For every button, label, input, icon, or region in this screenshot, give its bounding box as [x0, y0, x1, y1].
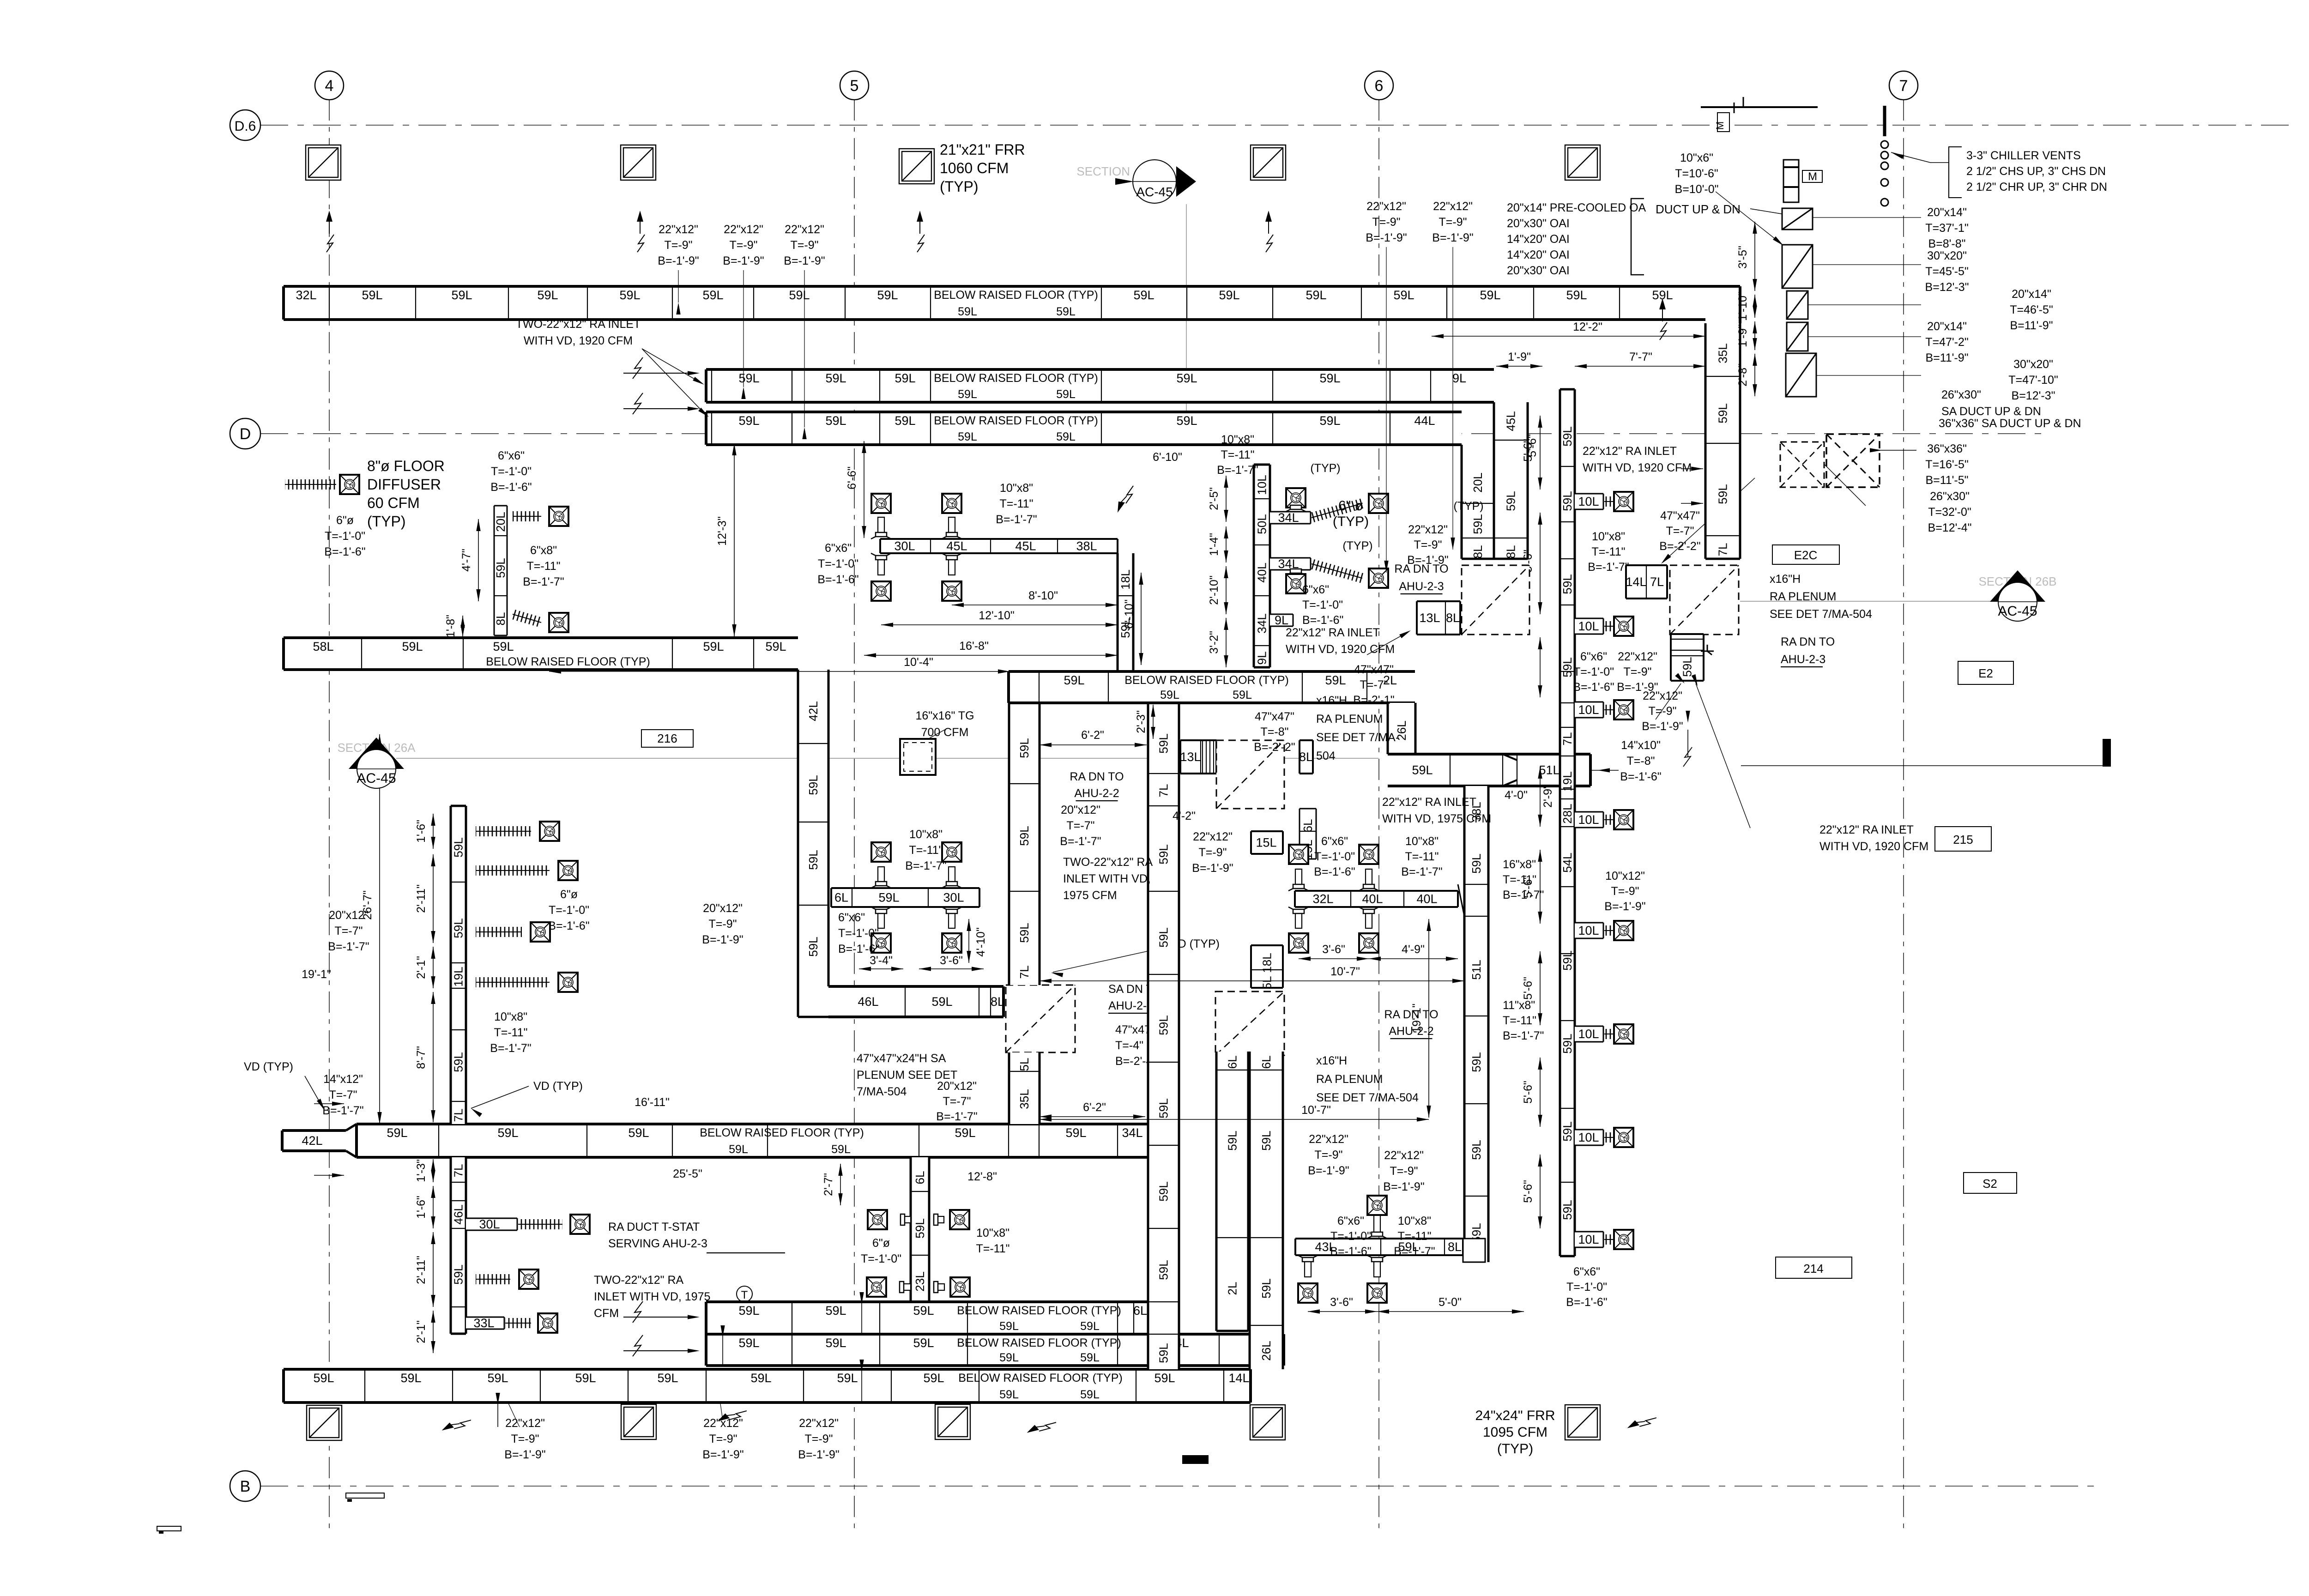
- svg-text:(TYP): (TYP): [940, 178, 979, 195]
- r4 stem b1: [1295, 913, 1302, 928]
- dim 6-2 v9: [1040, 1116, 1145, 1117]
- svg-text:26"x30": 26"x30": [1930, 490, 1970, 503]
- V1 branch flex 2: [476, 927, 522, 937]
- svg-text:22"x12": 22"x12": [1433, 200, 1473, 213]
- r6 stem b1: [1305, 1262, 1311, 1277]
- V1 fan 33L: [538, 1313, 557, 1333]
- svg-text:59L: 59L: [1560, 950, 1574, 970]
- svg-text:214: 214: [1803, 1262, 1823, 1276]
- FRR diffuser top #4: [1251, 145, 1286, 180]
- svg-text:59L: 59L: [1471, 514, 1485, 534]
- svg-text:20"x14": 20"x14": [1927, 320, 1967, 333]
- c1 stem B: [1293, 569, 1299, 570]
- V7 branch fan #1: [1614, 492, 1633, 511]
- svg-text:B=-1'-6": B=-1'-6": [490, 481, 532, 494]
- svg-text:59L: 59L: [537, 288, 558, 302]
- svg-text:6L: 6L: [1133, 1304, 1147, 1318]
- svg-text:51L: 51L: [1469, 960, 1483, 979]
- svg-text:B=11'-9": B=11'-9": [2010, 319, 2053, 332]
- duct 26L drop: [1388, 703, 1415, 754]
- duct corner band1 to V8: [1705, 285, 1740, 288]
- FRR diffuser top #1: [306, 145, 341, 180]
- feed arrow #2: [623, 408, 688, 409]
- svg-text:BELOW RAISED FLOOR (TYP): BELOW RAISED FLOOR (TYP): [934, 372, 1098, 385]
- r6 corner box: [1463, 1239, 1485, 1262]
- dim 2-7: [840, 1164, 841, 1205]
- twin duct right 6L/59L/26L: [1250, 1052, 1283, 1369]
- duct run 46L/59L/8L: [828, 986, 1004, 1017]
- V7 branch flex #2: [1604, 621, 1614, 631]
- V7 branch flex #8: [1604, 1234, 1614, 1245]
- svg-text:BELOW RAISED FLOOR (TYP): BELOW RAISED FLOOR (TYP): [934, 289, 1098, 302]
- grid column line 7: [1903, 99, 1904, 1529]
- svg-text:59L: 59L: [765, 640, 786, 653]
- svg-text:47"x47": 47"x47": [1354, 663, 1394, 676]
- svg-text:AC-45: AC-45: [357, 771, 396, 786]
- FRR diffuser top #2: [621, 145, 656, 180]
- svg-text:T=32'-0": T=32'-0": [1928, 506, 1971, 519]
- svg-text:1'-8": 1'-8": [444, 615, 457, 638]
- svg-text:BELOW RAISED FLOOR (TYP): BELOW RAISED FLOOR (TYP): [486, 655, 650, 668]
- svg-text:22"x12": 22"x12": [724, 223, 763, 236]
- svg-text:7/MA-504: 7/MA-504: [857, 1085, 907, 1098]
- dim 12-10: [881, 624, 1118, 625]
- V1 branch flex 1: [476, 865, 550, 876]
- svg-text:6"x6": 6"x6": [825, 542, 852, 555]
- grid row line B: [260, 1486, 2097, 1487]
- svg-text:59L: 59L: [1017, 826, 1031, 846]
- svg-text:B=10'-0": B=10'-0": [1675, 183, 1719, 196]
- svg-text:T=-9": T=-9": [709, 1433, 737, 1445]
- c1 stem A: [1293, 505, 1299, 506]
- V1 fan 3: [558, 973, 578, 992]
- svg-text:20L: 20L: [494, 512, 508, 532]
- leader lines right squares: [1813, 217, 1921, 218]
- svg-text:4'-0": 4'-0": [1505, 789, 1528, 802]
- svg-text:T=-1'-0": T=-1'-0": [491, 465, 532, 478]
- leader 10x6: [1716, 192, 1783, 245]
- svg-text:59L: 59L: [1157, 1181, 1171, 1201]
- svg-text:59L: 59L: [575, 1371, 596, 1385]
- grid bubble D: [230, 418, 260, 449]
- svg-text:59L: 59L: [825, 414, 846, 428]
- svg-text:59L: 59L: [837, 1371, 858, 1385]
- line to black bar: [1741, 765, 2103, 766]
- 59L box leader 2: [1696, 683, 1750, 828]
- svg-text:59L: 59L: [738, 414, 759, 428]
- svg-text:6"x6": 6"x6": [1337, 1215, 1364, 1227]
- svg-text:RA DN TO: RA DN TO: [1070, 770, 1124, 783]
- svg-text:AC-45: AC-45: [1998, 604, 2037, 619]
- duct 13L box: [1180, 740, 1216, 774]
- svg-text:T=-9": T=-9": [1199, 846, 1227, 859]
- duct V6 transition: [1458, 884, 1464, 916]
- grid column line 6: [1378, 99, 1379, 1529]
- c1 flex2: [1310, 559, 1364, 583]
- 6L 15L boxes: [1300, 809, 1316, 860]
- svg-text:59L: 59L: [878, 891, 899, 905]
- svg-text:59L: 59L: [400, 1371, 421, 1385]
- duct V6 vertical: [1464, 831, 1488, 1262]
- svg-text:10L: 10L: [1255, 475, 1269, 495]
- dim 19-1b: [1428, 919, 1429, 1118]
- svg-text:10'-7": 10'-7": [1330, 965, 1360, 978]
- bottom left tick: [347, 1499, 352, 1502]
- V7 branch stub 10L #7: [1575, 1130, 1603, 1145]
- dim 6-6: [864, 441, 864, 538]
- svg-text:22"x12": 22"x12": [1618, 650, 1657, 663]
- r1 fan b1: [871, 581, 891, 601]
- svg-text:5'-6": 5'-6": [1522, 875, 1535, 898]
- break arrow bottom #1: [442, 1410, 471, 1440]
- svg-text:30"x20": 30"x20": [1927, 249, 1967, 262]
- svg-text:1975 CFM: 1975 CFM: [1063, 889, 1117, 902]
- svg-text:42L: 42L: [302, 1134, 322, 1148]
- duct V3 corner to 46L run: [797, 986, 799, 1017]
- svg-text:6"ø: 6"ø: [872, 1237, 890, 1250]
- r6 stem b2: [1374, 1262, 1380, 1277]
- V7 branch flex #6: [1604, 1029, 1614, 1039]
- svg-text:B=-1'-9": B=-1'-9": [702, 933, 743, 946]
- svg-text:59L: 59L: [1560, 426, 1574, 446]
- svg-text:10'-4": 10'-4": [904, 656, 933, 669]
- svg-text:B=-1'-9": B=-1'-9": [784, 254, 825, 267]
- duct V3 vertical 42L/59L: [798, 670, 828, 986]
- svg-text:T=-7": T=-7": [1666, 525, 1694, 538]
- svg-text:2 1/2" CHR UP, 3" CHR DN: 2 1/2" CHR UP, 3" CHR DN: [1966, 181, 2107, 193]
- svg-text:B=-2'-2": B=-2'-2": [1659, 540, 1700, 553]
- duct V1 vertical 59L chain upper: [451, 806, 466, 1124]
- svg-text:1'-4": 1'-4": [1208, 533, 1221, 556]
- svg-text:22"x12": 22"x12": [703, 1417, 743, 1430]
- section marker AC-45 top: [1076, 160, 1196, 203]
- dim 2-9: [1540, 767, 1541, 827]
- svg-text:T=-1'-0": T=-1'-0": [325, 530, 365, 543]
- svg-text:B=-1'-7": B=-1'-7": [905, 859, 946, 872]
- svg-text:B=-1'-9": B=-1'-9": [658, 254, 699, 267]
- V2 fan left2: [867, 1277, 886, 1297]
- svg-text:3'-6": 3'-6": [1322, 943, 1345, 956]
- svg-text:4'-7": 4'-7": [460, 549, 473, 572]
- duct V7 central vertical: [1560, 389, 1575, 1256]
- svg-text:5'-6": 5'-6": [1522, 977, 1535, 1000]
- svg-text:B=12'-3": B=12'-3": [2012, 389, 2055, 402]
- svg-text:8'-7": 8'-7": [415, 1046, 428, 1069]
- duct band 3 (59L/44L run below raised floor): [706, 412, 1462, 445]
- svg-text:T=-9": T=-9": [511, 1433, 539, 1445]
- svg-text:B=-1'-6": B=-1'-6": [1566, 1296, 1607, 1309]
- svg-text:AHU-2-3: AHU-2-3: [1399, 580, 1444, 593]
- svg-text:7L: 7L: [452, 1164, 465, 1178]
- room tag E2C: [1772, 545, 1839, 564]
- c1 fan A: [1286, 488, 1306, 508]
- svg-text:T=-9": T=-9": [665, 239, 693, 252]
- FRR diffuser bottom #3: [935, 1404, 970, 1439]
- svg-text:2'-1": 2'-1": [415, 1320, 428, 1343]
- svg-text:59L: 59L: [657, 1371, 678, 1385]
- svg-text:E2C: E2C: [1794, 548, 1818, 562]
- svg-text:47"x47": 47"x47": [1255, 710, 1294, 723]
- svg-text:13L: 13L: [1180, 750, 1201, 764]
- svg-text:59L: 59L: [738, 1304, 759, 1318]
- svg-text:7: 7: [1899, 77, 1908, 95]
- svg-text:30L: 30L: [894, 539, 915, 553]
- c1 stub1: [1270, 511, 1311, 525]
- svg-text:22"x12": 22"x12": [1366, 200, 1406, 213]
- svg-text:T=37'-1": T=37'-1": [1925, 222, 1969, 235]
- svg-text:B=-1'-6": B=-1'-6": [1620, 770, 1661, 783]
- svg-text:RA DN TO: RA DN TO: [1781, 635, 1835, 648]
- r4 stem a2: [1366, 869, 1372, 884]
- svg-text:B=-1'-9": B=-1'-9": [504, 1448, 545, 1461]
- svg-text:T=-9": T=-9": [1372, 216, 1401, 229]
- c1 dims: [1226, 476, 1227, 522]
- V7 branch fan #5: [1614, 921, 1633, 940]
- r1 stem b2: [949, 560, 955, 575]
- break arrow top #4: [1265, 211, 1273, 252]
- svg-text:1'-3": 1'-3": [415, 1159, 428, 1182]
- svg-text:40L: 40L: [1416, 892, 1437, 906]
- break arrow top #2: [637, 211, 645, 252]
- floor diffuser box: [340, 475, 359, 494]
- svg-text:20"x30" OAI: 20"x30" OAI: [1507, 217, 1570, 230]
- dim 10-7a: [1040, 980, 1464, 981]
- V1 branch stub 33L: [466, 1316, 504, 1330]
- svg-text:59L: 59L: [1716, 484, 1730, 504]
- svg-text:59L: 59L: [958, 305, 977, 318]
- svg-text:32L: 32L: [296, 288, 316, 302]
- svg-text:5'-6": 5'-6": [1522, 1081, 1535, 1104]
- duct V9 vertical: [1009, 702, 1040, 985]
- svg-text:22"x12" RA INLET: 22"x12" RA INLET: [1286, 626, 1380, 639]
- duct band mid 59L: [1009, 671, 1415, 703]
- svg-text:2'-9": 2'-9": [1541, 785, 1554, 808]
- svg-text:10L: 10L: [1578, 924, 1599, 937]
- svg-text:14"x10": 14"x10": [1621, 739, 1661, 752]
- svg-text:SEE DET 7/MA-504: SEE DET 7/MA-504: [1316, 1091, 1419, 1104]
- V2 fan right1: [950, 1210, 969, 1229]
- svg-text:59L: 59L: [999, 1351, 1019, 1364]
- duct run 59L/51L: [1388, 754, 1590, 786]
- svg-text:44L: 44L: [1414, 414, 1435, 428]
- svg-text:59L: 59L: [913, 1336, 934, 1350]
- svg-text:T=-9": T=-9": [1611, 885, 1639, 898]
- dim 3-4: [859, 968, 903, 969]
- svg-text:1'-6": 1'-6": [415, 820, 428, 843]
- svg-text:10"x6": 10"x6": [1680, 151, 1713, 164]
- svg-text:28L: 28L: [1560, 804, 1574, 823]
- svg-text:40L: 40L: [1255, 562, 1269, 582]
- svg-text:6L: 6L: [834, 891, 848, 905]
- feed arrow #3: [623, 1317, 688, 1318]
- svg-text:59L: 59L: [1560, 1121, 1574, 1141]
- svg-text:59L: 59L: [452, 1264, 465, 1284]
- svg-text:59L: 59L: [1080, 1388, 1100, 1401]
- svg-text:WITH VD, 1975 CFM: WITH VD, 1975 CFM: [1382, 812, 1491, 825]
- V1 branch flex 3: [476, 977, 550, 987]
- section line 26A horizontal: [396, 758, 1378, 759]
- svg-text:3'-5": 3'-5": [1736, 246, 1749, 269]
- c1 flex1: [1310, 498, 1364, 522]
- svg-text:T=-1'-0": T=-1'-0": [1330, 1230, 1371, 1243]
- duct up boxes M: [1783, 160, 1799, 202]
- svg-text:16'-11": 16'-11": [635, 1096, 670, 1109]
- r6 fan b2: [1367, 1283, 1387, 1303]
- r4 fan b1: [1289, 933, 1308, 953]
- svg-text:T=-7": T=-7": [1067, 819, 1095, 832]
- svg-text:59L: 59L: [738, 371, 759, 385]
- svg-text:22"x12": 22"x12": [505, 1417, 545, 1430]
- SA plenum dashed on V9: [1006, 985, 1075, 1052]
- V7 branch fan #8: [1614, 1230, 1633, 1249]
- svg-text:45L: 45L: [1504, 411, 1518, 431]
- svg-text:6"ø: 6"ø: [336, 514, 354, 527]
- svg-text:59L: 59L: [750, 1371, 771, 1385]
- svg-text:59L: 59L: [1560, 491, 1574, 511]
- V7 branch stub 10L #1: [1575, 494, 1603, 509]
- svg-text:B=-1'-6": B=-1'-6": [838, 943, 879, 955]
- svg-text:(TYP): (TYP): [367, 513, 406, 530]
- svg-text:22"x12": 22"x12": [785, 223, 824, 236]
- duct band 1 (32L/59L run below raised floor): [284, 286, 1705, 320]
- svg-text:RA PLENUM: RA PLENUM: [1316, 713, 1383, 725]
- svg-text:10'-7": 10'-7": [1301, 1104, 1331, 1117]
- c1 fan1: [1369, 494, 1388, 513]
- svg-text:B=-2'-2": B=-2'-2": [1254, 741, 1295, 754]
- duct band B: [706, 1334, 1284, 1366]
- svg-text:x16"H: x16"H: [1770, 573, 1801, 586]
- dim arrow band4 left1: [314, 1103, 344, 1104]
- svg-text:5'-6": 5'-6": [1526, 434, 1539, 457]
- lw flex1: [513, 511, 541, 521]
- svg-text:14L: 14L: [1228, 1371, 1249, 1385]
- svg-text:5'-6": 5'-6": [1522, 1180, 1535, 1203]
- r1 fan b2: [942, 581, 961, 601]
- V2 stem r2: [934, 1284, 944, 1290]
- dim 3-6a: [919, 968, 984, 969]
- svg-text:T=-1'-0": T=-1'-0": [1573, 665, 1614, 678]
- svg-text:WITH VD, 1920 CFM: WITH VD, 1920 CFM: [1583, 461, 1692, 474]
- svg-text:6"x6": 6"x6": [1321, 835, 1348, 848]
- dim 2-3: [1153, 705, 1154, 739]
- svg-text:6L: 6L: [1301, 819, 1315, 833]
- r4 stem a1: [1295, 869, 1302, 884]
- VD leader 3: [1053, 948, 1164, 972]
- svg-text:T=10'-6": T=10'-6": [1675, 167, 1718, 180]
- svg-text:4'-10": 4'-10": [974, 927, 987, 957]
- lw dims: [478, 519, 479, 601]
- V7 branch flex #4: [1604, 815, 1614, 825]
- svg-text:3-3" CHILLER VENTS: 3-3" CHILLER VENTS: [1966, 149, 2081, 162]
- svg-text:5L: 5L: [1260, 976, 1274, 990]
- svg-text:B=-1'-7": B=-1'-7": [523, 575, 564, 588]
- svg-text:59L: 59L: [1160, 689, 1179, 701]
- dim arrow band4 left2: [314, 1175, 344, 1176]
- svg-text:20"x14": 20"x14": [2012, 288, 2051, 301]
- svg-text:TWO-22"x12" RA: TWO-22"x12" RA: [1063, 856, 1153, 869]
- svg-text:59L: 59L: [1259, 1278, 1273, 1298]
- V7 branch stub 10L #5: [1575, 923, 1603, 938]
- svg-text:T=-1'-0": T=-1'-0": [1302, 598, 1343, 611]
- svg-text:24"x24" FRR: 24"x24" FRR: [1475, 1408, 1555, 1423]
- SA duct dashed big: [1826, 434, 1880, 487]
- room tag 215: [1935, 827, 1991, 851]
- svg-text:10"x8": 10"x8": [1592, 530, 1625, 543]
- svg-text:59L: 59L: [362, 288, 382, 302]
- svg-text:SEE DET 7/MA-: SEE DET 7/MA-: [1316, 731, 1399, 744]
- svg-text:10L: 10L: [1578, 1233, 1599, 1246]
- svg-text:T=-9": T=-9": [730, 239, 758, 252]
- svg-text:B: B: [240, 1478, 251, 1495]
- svg-text:7L: 7L: [1560, 732, 1574, 746]
- svg-text:B=-1'-6": B=-1'-6": [817, 573, 858, 586]
- svg-text:59L: 59L: [806, 850, 820, 870]
- svg-text:59L: 59L: [931, 995, 952, 1009]
- svg-text:8L: 8L: [1504, 545, 1518, 559]
- svg-text:T=-9": T=-9": [1315, 1149, 1343, 1161]
- floor diffuser flex: [285, 479, 336, 490]
- svg-text:S2: S2: [1983, 1177, 1997, 1191]
- svg-text:AHU-2-2: AHU-2-2: [1074, 787, 1119, 800]
- svg-text:59L: 59L: [402, 640, 423, 653]
- svg-text:B=-1'-7": B=-1'-7": [1503, 1029, 1544, 1042]
- duct 8L box D: [1299, 740, 1313, 774]
- svg-text:5L: 5L: [1017, 1058, 1031, 1071]
- svg-text:B=-1'-6": B=-1'-6": [1314, 865, 1355, 878]
- svg-text:26"x30": 26"x30": [1941, 388, 1981, 401]
- svg-text:T=-1'-0": T=-1'-0": [818, 557, 858, 570]
- svg-text:1095 CFM: 1095 CFM: [1483, 1425, 1547, 1440]
- svg-text:59L: 59L: [452, 918, 465, 938]
- svg-text:59L: 59L: [1233, 689, 1252, 701]
- dim 6-2 mid: [1040, 744, 1147, 745]
- duct C1 vertical 50L/40L/34L: [1254, 465, 1270, 667]
- leader inlet mid: [1367, 632, 1408, 655]
- V1 fan 30L: [570, 1215, 590, 1234]
- r4 fan a2: [1359, 845, 1378, 864]
- svg-text:33L: 33L: [473, 1316, 494, 1330]
- svg-text:B=-1'-7": B=-1'-7": [328, 940, 369, 953]
- r5 cap arrow: [1590, 770, 1619, 771]
- svg-text:8"ø FLOOR: 8"ø FLOOR: [367, 458, 445, 474]
- r4 fan b2: [1359, 933, 1378, 953]
- V7 branch flex #7: [1604, 1132, 1614, 1143]
- duct 14L 7L box: [1626, 565, 1667, 598]
- svg-text:3'-6": 3'-6": [1330, 1296, 1353, 1309]
- svg-text:WITH VD, 1920 CFM: WITH VD, 1920 CFM: [1819, 840, 1928, 853]
- svg-text:B=-1'-9": B=-1'-9": [1604, 900, 1645, 913]
- svg-text:D: D: [240, 425, 251, 443]
- svg-text:36"x36" SA DUCT UP & DN: 36"x36" SA DUCT UP & DN: [1939, 417, 2081, 430]
- svg-text:M: M: [1714, 121, 1726, 130]
- diffuser stem a4: [949, 913, 955, 928]
- svg-text:T=-11": T=-11": [526, 560, 560, 573]
- svg-text:54L: 54L: [1560, 852, 1574, 872]
- svg-text:504: 504: [1316, 750, 1336, 762]
- svg-text:T=-8": T=-8": [1627, 755, 1655, 768]
- svg-text:T=-11": T=-11": [1591, 545, 1625, 558]
- svg-text:6'-2": 6'-2": [1081, 729, 1104, 742]
- svg-text:47"x47"x24"H SA: 47"x47"x24"H SA: [857, 1052, 946, 1065]
- svg-text:RA PLENUM: RA PLENUM: [1770, 590, 1836, 603]
- svg-text:BELOW RAISED FLOOR (TYP): BELOW RAISED FLOOR (TYP): [958, 1372, 1123, 1384]
- svg-text:(TYP): (TYP): [1333, 514, 1369, 529]
- svg-text:40L: 40L: [1362, 892, 1383, 906]
- dim 12-3: [734, 443, 735, 636]
- fan diffuser a3: [871, 933, 891, 953]
- svg-text:T=47'-2": T=47'-2": [1925, 336, 1969, 349]
- duct run 43L/59L/8L: [1295, 1239, 1463, 1255]
